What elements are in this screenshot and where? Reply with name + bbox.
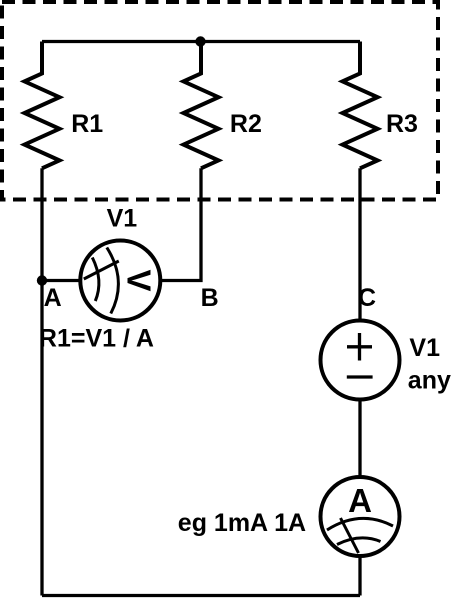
voltmeter V1 — [80, 241, 160, 321]
voltage source V1 — [321, 321, 400, 400]
resistor R3 — [343, 42, 378, 169]
svg-text:R3: R3 — [386, 110, 418, 138]
wire: R2 bottom down to node B corner — [160, 168, 201, 280]
wire: top rail from R1 to R3 — [42, 40, 360, 43]
svg-text:V1: V1 — [409, 334, 440, 362]
wire: left branch R1 bottom down to bottom rail — [40, 168, 43, 595]
svg-text:A: A — [348, 482, 372, 519]
svg-text:R1=V1 / A: R1=V1 / A — [39, 324, 154, 352]
svg-text:V1: V1 — [107, 205, 138, 233]
svg-text:eg 1mA 1A: eg 1mA 1A — [178, 509, 306, 537]
svg-text:any: any — [408, 367, 451, 395]
wire: ammeter to bottom rail — [358, 556, 361, 596]
node A junction dot — [37, 275, 47, 285]
resistor R1 — [25, 42, 60, 169]
wire: R3 bottom down to voltage source — [358, 168, 361, 320]
wire: bottom rail — [42, 594, 360, 597]
svg-text:V: V — [121, 269, 158, 291]
svg-text:R1: R1 — [71, 110, 103, 138]
junction dot at top of R2 — [195, 36, 205, 46]
dashed selection box around R1 R2 R3 — [2, 2, 438, 200]
wire: voltage source to ammeter — [358, 400, 361, 478]
svg-text:R2: R2 — [230, 110, 262, 138]
svg-text:B: B — [201, 284, 219, 312]
ammeter A1 — [321, 477, 400, 556]
wire: node A to voltmeter left terminal — [42, 279, 80, 282]
svg-text:A: A — [44, 284, 62, 312]
resistor R2 — [184, 42, 219, 169]
